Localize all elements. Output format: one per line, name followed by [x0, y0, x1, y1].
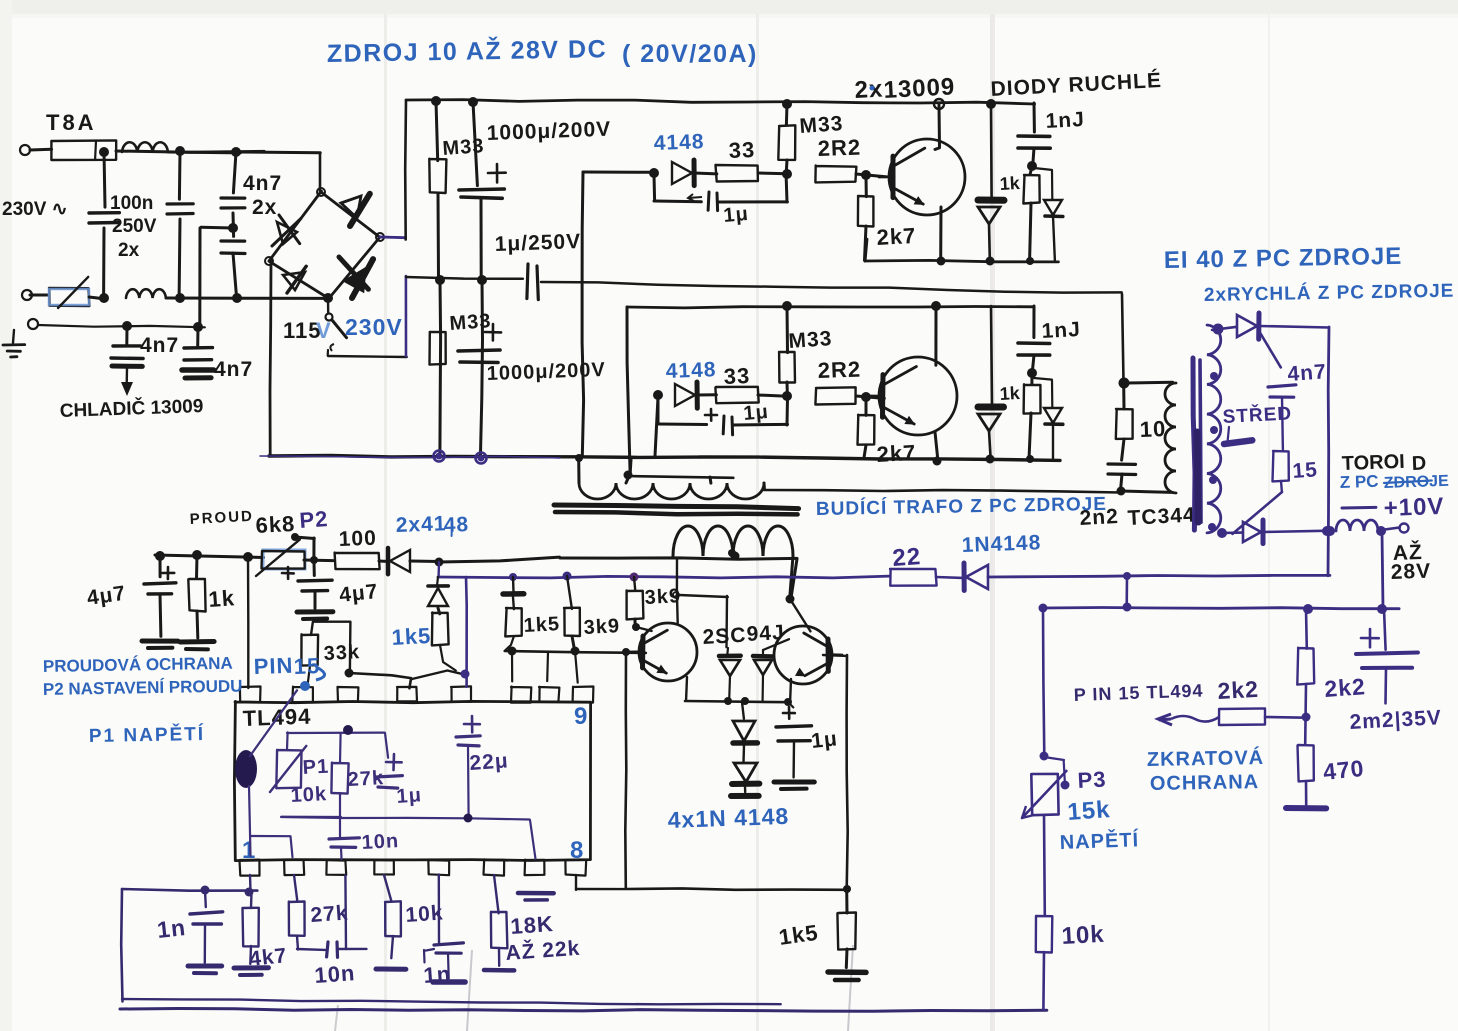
svg-text:100n: 100n: [110, 193, 153, 214]
svg-text:230V ∿: 230V ∿: [2, 199, 68, 220]
svg-text:2R2: 2R2: [817, 356, 861, 382]
svg-text:+10V: +10V: [1383, 493, 1445, 522]
svg-text:P3: P3: [1077, 767, 1107, 793]
svg-text:100: 100: [338, 527, 377, 551]
svg-text:4n7: 4n7: [1287, 360, 1328, 386]
svg-text:ZDROJ 10 AŽ 28V DC: ZDROJ 10 AŽ 28V DC: [327, 33, 608, 68]
svg-text:P2: P2: [299, 506, 330, 533]
svg-text:4n7: 4n7: [140, 334, 179, 357]
svg-text:2x: 2x: [118, 240, 140, 261]
svg-text:22: 22: [892, 543, 923, 572]
svg-text:2k7: 2k7: [876, 440, 917, 467]
svg-text:2x: 2x: [252, 196, 277, 219]
svg-text:M33: M33: [788, 327, 833, 353]
svg-text:T8A: T8A: [46, 110, 97, 135]
svg-text:4k7: 4k7: [248, 944, 288, 971]
svg-text:1μ: 1μ: [810, 727, 839, 753]
svg-text:15k: 15k: [1067, 796, 1112, 826]
svg-text:4148: 4148: [665, 358, 716, 383]
svg-text:EI 40 Z PC ZDROJE: EI 40 Z PC ZDROJE: [1164, 243, 1403, 274]
svg-text:PROUDOVÁ OCHRANA: PROUDOVÁ OCHRANA: [43, 654, 233, 676]
svg-text:1N4148: 1N4148: [961, 531, 1041, 557]
svg-text:3k9: 3k9: [583, 615, 620, 639]
svg-text:2n2: 2n2: [1079, 505, 1119, 530]
svg-text:D: D: [1411, 453, 1426, 475]
svg-text:1000μ/200V: 1000μ/200V: [486, 359, 606, 385]
svg-text:1μ: 1μ: [723, 203, 750, 227]
svg-text:2k2: 2k2: [1217, 676, 1260, 704]
svg-text:1n: 1n: [423, 961, 452, 988]
svg-text:PIN: PIN: [253, 653, 294, 679]
svg-text:P2 NASTAVENÍ PROUDU: P2 NASTAVENÍ PROUDU: [43, 677, 243, 699]
svg-text:10n: 10n: [361, 830, 400, 854]
svg-text:2x41: 2x41: [395, 512, 446, 537]
svg-text:2xRYCHLÁ Z PC ZDROJE: 2xRYCHLÁ Z PC ZDROJE: [1204, 280, 1455, 306]
svg-text:2k2: 2k2: [1324, 673, 1367, 702]
svg-text:15: 15: [1292, 458, 1319, 483]
svg-text:1μ/250V: 1μ/250V: [494, 230, 581, 256]
svg-text:2R2: 2R2: [817, 134, 861, 160]
svg-text:15: 15: [293, 653, 320, 679]
svg-text:PROUD: PROUD: [189, 508, 254, 528]
svg-text:1k5: 1k5: [523, 613, 560, 637]
svg-text:2k7: 2k7: [876, 223, 917, 250]
svg-text:1μ: 1μ: [743, 401, 770, 425]
svg-text:33: 33: [728, 137, 755, 163]
svg-text:TC344: TC344: [1127, 503, 1196, 530]
svg-text:V: V: [316, 318, 332, 343]
svg-text:4μ7: 4μ7: [338, 580, 379, 607]
svg-text:27k: 27k: [310, 901, 350, 927]
svg-text:13009: 13009: [883, 73, 956, 104]
svg-text:28V: 28V: [1390, 560, 1431, 584]
svg-text:10k: 10k: [1061, 921, 1105, 950]
svg-text:9: 9: [574, 703, 588, 730]
svg-text:NAPĚTÍ: NAPĚTÍ: [1059, 827, 1139, 854]
svg-text:1k5: 1k5: [391, 623, 432, 650]
svg-text:1μ: 1μ: [396, 784, 423, 808]
svg-text:250V: 250V: [112, 216, 157, 237]
svg-text:1k: 1k: [999, 173, 1021, 194]
svg-text:33: 33: [723, 363, 750, 389]
svg-text:4148: 4148: [653, 130, 704, 155]
svg-text:ZKRATOVÁ: ZKRATOVÁ: [1147, 746, 1265, 771]
svg-text:OCHRANA: OCHRANA: [1150, 771, 1260, 795]
svg-text:1000μ/200V: 1000μ/200V: [486, 118, 611, 145]
svg-text:1nJ: 1nJ: [1041, 318, 1081, 343]
svg-text:1n: 1n: [156, 914, 187, 943]
svg-text:4n7: 4n7: [214, 358, 253, 381]
svg-text:48: 48: [443, 513, 469, 537]
svg-text:6k8: 6k8: [255, 511, 296, 538]
svg-text:1k: 1k: [999, 383, 1021, 404]
svg-text:10n: 10n: [314, 960, 357, 988]
svg-text:M33: M33: [442, 135, 485, 160]
svg-text:P1 NAPĚTÍ: P1 NAPĚTÍ: [89, 723, 206, 747]
svg-text:2x: 2x: [854, 76, 884, 104]
svg-text:M33: M33: [799, 112, 844, 138]
svg-text:18K: 18K: [510, 911, 555, 939]
svg-text:33k: 33k: [323, 641, 360, 665]
svg-text:4x1N 4148: 4x1N 4148: [667, 803, 789, 833]
svg-text:230V: 230V: [345, 314, 403, 340]
svg-text:STŘED: STŘED: [1222, 402, 1292, 428]
svg-text:( 20V/20A): ( 20V/20A): [622, 40, 758, 68]
svg-text:470: 470: [1322, 755, 1366, 785]
svg-text:1k: 1k: [208, 585, 236, 612]
svg-text:2m2|35V: 2m2|35V: [1349, 706, 1442, 734]
svg-text:P1: P1: [302, 756, 330, 779]
svg-text:4n7: 4n7: [243, 172, 282, 195]
svg-text:1nJ: 1nJ: [1045, 108, 1085, 133]
svg-text:10: 10: [1139, 416, 1166, 442]
svg-text:Z PC: Z PC: [1339, 472, 1378, 492]
svg-text:2SC: 2SC: [702, 624, 747, 649]
svg-text:22μ: 22μ: [469, 749, 510, 775]
svg-text:10k: 10k: [290, 783, 327, 807]
